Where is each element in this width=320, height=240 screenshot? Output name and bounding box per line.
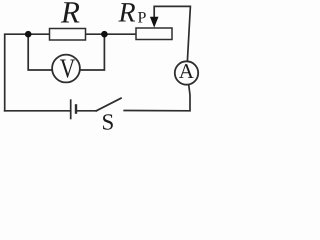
svg-text:R: R: [118, 0, 136, 29]
svg-text:V: V: [60, 53, 76, 84]
svg-text:A: A: [179, 59, 195, 83]
svg-text:S: S: [102, 110, 115, 135]
svg-text:R: R: [60, 0, 80, 30]
svg-text:P: P: [138, 10, 147, 27]
